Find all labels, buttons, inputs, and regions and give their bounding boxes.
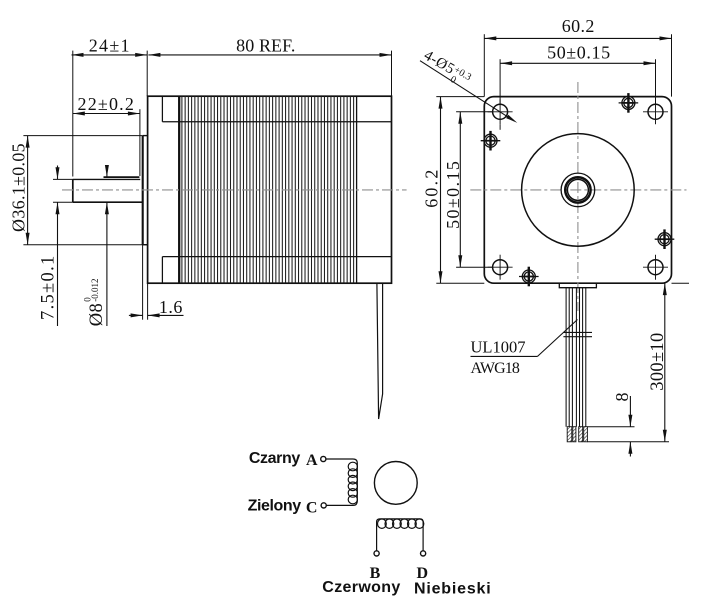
schematic terminal dot A xyxy=(321,456,326,461)
side view: front-cap bottom step xyxy=(161,257,163,284)
svg-text:Niebieski: Niebieski xyxy=(414,580,491,597)
schematic terminal dot B xyxy=(374,551,379,556)
svg-text:1.6: 1.6 xyxy=(159,297,183,317)
schematic rotor circle xyxy=(374,462,417,505)
svg-text:AWG18: AWG18 xyxy=(471,360,520,377)
schematic wire A to coil xyxy=(326,459,357,505)
schematic coil B-D (horizontal) with leads xyxy=(377,519,424,551)
dimension Ø8 0/-0.012 xyxy=(82,279,107,327)
front view: shaft circles xyxy=(561,173,595,207)
side view: front-cap top step xyxy=(161,96,163,122)
svg-text:Zielony: Zielony xyxy=(248,497,302,514)
svg-text:50±0.15: 50±0.15 xyxy=(547,42,611,62)
front view: rear-hole position marks (circle-cross) xyxy=(484,134,497,147)
svg-text:60.2: 60.2 xyxy=(562,16,595,36)
front view: flange square xyxy=(484,97,671,284)
front view: horizontal centerline xyxy=(470,189,686,191)
svg-text:Czerwony: Czerwony xyxy=(322,579,400,596)
svg-text:Ø8: Ø8 xyxy=(87,303,107,327)
svg-text:-0.012: -0.012 xyxy=(90,279,100,302)
label 4-Ø5 +0.3/0 with leader xyxy=(418,48,473,92)
svg-text:UL1007: UL1007 xyxy=(471,338,526,357)
front view: lead wires bundle xyxy=(566,288,586,427)
side view: bottom chamfer line xyxy=(162,256,391,258)
front view: vertical centerline xyxy=(577,82,579,311)
side view: motor body outline xyxy=(148,96,392,283)
front view: cable break mark xyxy=(563,331,592,333)
svg-text:C: C xyxy=(306,499,318,516)
side view: shaft xyxy=(73,178,140,180)
front view: cable exit tab xyxy=(559,283,596,287)
schematic terminal dot D xyxy=(421,551,426,556)
svg-text:8: 8 xyxy=(612,393,632,402)
schematic terminal dot C xyxy=(321,503,326,508)
svg-text:80 REF.: 80 REF. xyxy=(236,35,295,55)
front view: boss circle Ø36.1 xyxy=(522,134,635,247)
front view: 4 corner mounting holes Ø5 with crosshairs xyxy=(493,104,508,119)
svg-text:22±0.2: 22±0.2 xyxy=(78,94,136,114)
svg-text:24±1: 24±1 xyxy=(89,35,131,55)
svg-text:Ø36.1±0.05: Ø36.1±0.05 xyxy=(9,143,29,232)
schematic coil A-C (vertical) xyxy=(348,462,357,504)
side view: axis centerline xyxy=(62,189,407,191)
svg-text:60.2: 60.2 xyxy=(422,167,442,207)
svg-text:A: A xyxy=(306,452,318,469)
side view: lamination front boundary (thick) xyxy=(178,96,180,283)
front view: stripped wire ends (hatched) xyxy=(567,427,572,442)
side view: lamination rear boundary xyxy=(356,96,358,283)
side view: stator lamination hatch xyxy=(182,96,354,283)
side view: pilot boss Ø36.1 xyxy=(142,136,144,245)
svg-text:7.5±0.1: 7.5±0.1 xyxy=(39,254,59,320)
side view: lead wire at rear bottom xyxy=(377,283,383,419)
side view: top chamfer line xyxy=(162,121,391,123)
svg-text:Czarny: Czarny xyxy=(249,450,300,467)
